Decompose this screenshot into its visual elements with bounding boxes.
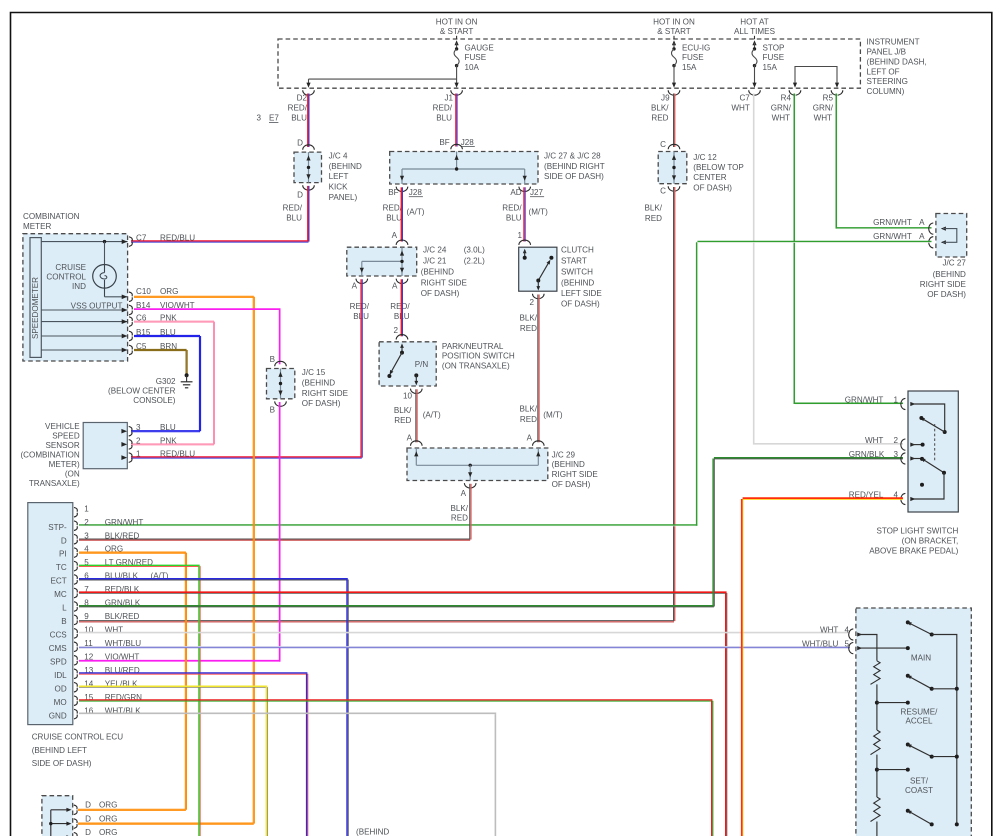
svg-text:WHT: WHT [865, 436, 883, 445]
svg-text:RED: RED [394, 416, 411, 425]
svg-text:2: 2 [529, 298, 534, 307]
wire RED/BLU J/C4 to combination meter C7 [131, 186, 309, 242]
wire BRN C5 to ground G302 [134, 349, 187, 373]
svg-text:ALL TIMES: ALL TIMES [734, 27, 776, 36]
svg-text:METER: METER [23, 222, 51, 231]
svg-text:GRN/WHT: GRN/WHT [105, 518, 144, 527]
wire GRN/WHT R5 to J/C 27 A [836, 94, 931, 229]
svg-text:C10: C10 [136, 287, 151, 296]
bottom switch [906, 809, 910, 813]
svg-text:ORG: ORG [160, 287, 178, 296]
svg-text:RED: RED [520, 324, 537, 333]
svg-text:3: 3 [256, 114, 261, 123]
svg-text:BLK/: BLK/ [519, 405, 537, 414]
svg-text:D2: D2 [297, 93, 308, 102]
svg-text:OF DASH): OF DASH) [693, 183, 732, 192]
svg-text:10A: 10A [465, 63, 480, 72]
svg-text:C: C [660, 186, 666, 195]
svg-text:SPD: SPD [50, 657, 67, 666]
svg-text:ABOVE BRAKE PEDAL): ABOVE BRAKE PEDAL) [869, 546, 958, 555]
svg-text:RED/: RED/ [288, 104, 308, 113]
connector (three D terminals) [42, 796, 73, 836]
svg-text:STOP LIGHT SWITCH: STOP LIGHT SWITCH [876, 527, 958, 536]
wire PNK C6 to VSS pin 2 [131, 321, 215, 445]
svg-text:WHT: WHT [731, 104, 749, 113]
svg-text:15A: 15A [763, 63, 778, 72]
svg-text:PANEL): PANEL) [329, 193, 358, 202]
svg-text:RED: RED [645, 214, 662, 223]
speedometer [30, 238, 41, 358]
svg-text:STEERING: STEERING [867, 77, 908, 86]
wire LT GRN/RED ECU pin 5 [79, 565, 200, 836]
svg-text:RED/: RED/ [350, 302, 370, 311]
svg-text:HOT IN ON: HOT IN ON [436, 17, 478, 26]
svg-text:R5: R5 [823, 93, 834, 102]
svg-text:J/C 27 & J/C 28: J/C 27 & J/C 28 [544, 152, 601, 161]
svg-text:SIDE OF DASH): SIDE OF DASH) [544, 172, 604, 181]
svg-text:LEFT OF: LEFT OF [867, 67, 900, 76]
vehicle speed sensor [83, 423, 127, 469]
svg-text:BLK/RED: BLK/RED [105, 612, 140, 621]
svg-text:RED: RED [451, 513, 468, 522]
svg-text:2: 2 [136, 436, 141, 445]
wire BLU/RED ECU pin 13 [79, 673, 308, 836]
fuse STOP FUSE 15A [752, 40, 757, 87]
svg-text:CCS: CCS [50, 631, 68, 640]
svg-text:D: D [85, 814, 91, 823]
svg-text:OF DASH): OF DASH) [421, 289, 460, 298]
svg-text:(BELOW TOP: (BELOW TOP [693, 163, 744, 172]
svg-text:TC: TC [56, 563, 67, 572]
svg-text:C7: C7 [739, 93, 750, 102]
svg-text:J1: J1 [444, 93, 453, 102]
svg-text:A: A [461, 489, 467, 498]
svg-text:START: START [561, 256, 587, 265]
svg-text:RED/: RED/ [390, 302, 410, 311]
svg-text:2: 2 [84, 518, 89, 527]
wire RED/BLK ECU pin 7 [79, 592, 727, 836]
cruise control ECU [28, 503, 73, 725]
svg-text:A: A [352, 282, 358, 291]
svg-text:BLU: BLU [386, 213, 402, 222]
wire GRN/BLK ECU pin 8 to stop light switch 3 [79, 458, 903, 607]
svg-text:ECT: ECT [51, 577, 67, 586]
wire ORG ECU pin 4 to D connector row 1 [78, 552, 186, 810]
wire BLK/RED J/C 12 to ECU pin 9 [79, 187, 675, 622]
svg-text:POSITION SWITCH: POSITION SWITCH [442, 352, 515, 361]
wire branch from gauge fuse to D2 [309, 78, 457, 80]
park/neutral position switch [396, 335, 408, 340]
svg-text:VEHICLE: VEHICLE [45, 422, 80, 431]
svg-text:LEFT: LEFT [329, 172, 349, 181]
svg-text:BF: BF [388, 188, 398, 197]
svg-text:COAST: COAST [905, 786, 933, 795]
svg-text:SPEEDOMETER: SPEEDOMETER [31, 277, 40, 339]
svg-text:RED: RED [520, 415, 537, 424]
svg-text:GRN/: GRN/ [771, 104, 792, 113]
svg-text:RIGHT SIDE: RIGHT SIDE [302, 389, 349, 398]
svg-text:RIGHT SIDE: RIGHT SIDE [421, 279, 468, 288]
svg-text:RED/BLU: RED/BLU [160, 233, 195, 242]
connector exits below J/B [303, 90, 315, 95]
svg-text:10: 10 [403, 391, 413, 400]
cruise control switch assembly [856, 608, 971, 836]
svg-text:OD: OD [55, 684, 67, 693]
svg-text:D: D [85, 801, 91, 810]
svg-text:D: D [61, 536, 67, 545]
svg-text:1: 1 [136, 450, 141, 459]
wire BLK/RED J/C 29 to ECU pin 3 [79, 484, 471, 540]
svg-text:AD: AD [510, 188, 521, 197]
svg-text:G302: G302 [156, 377, 176, 386]
svg-text:GRN/WHT: GRN/WHT [873, 218, 912, 227]
svg-text:PANEL J/B: PANEL J/B [867, 48, 907, 57]
svg-text:PARK/NEUTRAL: PARK/NEUTRAL [442, 342, 504, 351]
svg-text:WHT: WHT [772, 114, 790, 123]
svg-text:BLK/: BLK/ [651, 104, 669, 113]
svg-text:METER): METER) [49, 460, 80, 469]
wire WHT/BLU ECU pin 11 to control switch 5 [79, 646, 850, 647]
svg-text:R4: R4 [781, 93, 792, 102]
svg-text:SENSOR: SENSOR [46, 441, 80, 450]
fuse ECU-IG FUSE 15A [672, 40, 677, 87]
svg-text:D: D [297, 139, 303, 148]
svg-text:CMS: CMS [49, 644, 68, 653]
svg-text:A: A [919, 218, 925, 227]
svg-text:3: 3 [893, 450, 898, 459]
svg-text:GRN/: GRN/ [813, 104, 834, 113]
svg-text:ORG: ORG [99, 814, 117, 823]
svg-text:(BEHIND RIGHT: (BEHIND RIGHT [544, 162, 605, 171]
svg-text:RED/: RED/ [283, 204, 303, 213]
svg-text:BLK/RED: BLK/RED [105, 531, 140, 540]
svg-text:9: 9 [84, 612, 89, 621]
svg-text:CONSOLE): CONSOLE) [133, 396, 176, 405]
svg-text:VSS OUTPUT: VSS OUTPUT [71, 301, 123, 310]
svg-text:(A/T): (A/T) [423, 410, 441, 419]
wire GRN/WHT R4 to stop light switch 1 [794, 94, 903, 405]
svg-text:PI: PI [59, 550, 67, 559]
svg-text:COLUMN): COLUMN) [867, 87, 905, 96]
svg-text:J9: J9 [661, 93, 670, 102]
wire RED/BLU D2 to J/C 4 [308, 94, 309, 148]
svg-text:J/C 21: J/C 21 [423, 256, 447, 265]
svg-text:GND: GND [49, 711, 67, 720]
svg-text:GRN/WHT: GRN/WHT [873, 232, 912, 241]
wire RED/BLU to clutch start switch [524, 187, 525, 241]
wire RED/BLU J1 to J/C 27 & 28 [456, 94, 457, 147]
svg-text:D: D [85, 828, 91, 836]
ground G302 [181, 373, 193, 388]
svg-text:RED/: RED/ [433, 104, 453, 113]
stop light switch [908, 391, 958, 512]
RESUME/ACCEL switch [906, 674, 910, 678]
svg-text:J/C 24: J/C 24 [423, 245, 447, 254]
svg-text:BLU: BLU [291, 114, 307, 123]
svg-text:SPEED: SPEED [52, 431, 80, 440]
wire VIO/WHT J/C 15 to ECU pin 12 [79, 402, 281, 662]
svg-text:2: 2 [393, 326, 398, 335]
svg-text:OF DASH): OF DASH) [561, 299, 600, 308]
svg-text:KICK: KICK [329, 183, 348, 192]
svg-text:ORG: ORG [99, 801, 117, 810]
svg-text:A: A [392, 282, 398, 291]
svg-text:BLU: BLU [506, 213, 522, 222]
resistor R2 [871, 730, 881, 755]
wire VIO/WHT B14 to J/C 15 [134, 309, 281, 364]
svg-text:WHT: WHT [820, 626, 838, 635]
svg-text:A: A [919, 232, 925, 241]
meter terminals [122, 239, 128, 244]
svg-text:(3.0L): (3.0L) [464, 245, 485, 254]
wire BLU/BLK ECU pin 6 [79, 579, 348, 836]
wire RED/BLU J/C 24 to park/neutral switch [401, 279, 402, 336]
svg-text:(A/T): (A/T) [407, 208, 425, 217]
svg-text:BLK/: BLK/ [644, 204, 662, 213]
svg-text:ECU-IG: ECU-IG [682, 44, 710, 53]
cruise control indicator lamp [41, 240, 127, 297]
svg-text:J/C 15: J/C 15 [302, 368, 326, 377]
wire RED/GRN ECU pin 15 [79, 700, 713, 836]
svg-text:(BEHIND: (BEHIND [302, 379, 335, 388]
svg-text:SIDE OF DASH): SIDE OF DASH) [32, 759, 92, 768]
wire BLU B15 to VSS pin 3 [131, 335, 201, 431]
svg-text:(COMBINATION: (COMBINATION [20, 450, 79, 459]
svg-text:(M/T): (M/T) [529, 208, 549, 217]
svg-text:E7: E7 [269, 114, 279, 123]
svg-text:J/C 4: J/C 4 [329, 152, 348, 161]
svg-text:& START: & START [657, 27, 690, 36]
svg-text:(ON: (ON [65, 469, 80, 478]
svg-text:BLU: BLU [160, 423, 176, 432]
svg-text:STP-: STP- [48, 523, 67, 532]
wire WHT C7 to stop light switch 2 [754, 94, 903, 445]
svg-text:HOT AT: HOT AT [740, 17, 769, 26]
svg-text:GRN/BLK: GRN/BLK [849, 450, 885, 459]
svg-text:(ON BRACKET,: (ON BRACKET, [902, 537, 959, 546]
svg-text:GAUGE: GAUGE [465, 44, 495, 53]
svg-text:BLU: BLU [436, 114, 452, 123]
svg-text:(ON TRANSAXLE): (ON TRANSAXLE) [442, 361, 510, 370]
svg-text:FUSE: FUSE [763, 53, 785, 62]
svg-text:RED/: RED/ [383, 203, 403, 212]
VSS terminals [121, 429, 127, 434]
svg-text:C7: C7 [136, 233, 147, 242]
svg-text:WHT: WHT [814, 114, 832, 123]
svg-text:(BEHIND: (BEHIND [329, 162, 362, 171]
svg-text:RIGHT SIDE: RIGHT SIDE [552, 470, 599, 479]
svg-text:A: A [407, 433, 413, 442]
svg-text:PNK: PNK [160, 436, 177, 445]
svg-text:P/N: P/N [415, 360, 429, 369]
svg-text:B: B [270, 355, 275, 364]
svg-text:ACCEL: ACCEL [906, 717, 933, 726]
wire ORG C10 to D connector row 2 [78, 296, 254, 824]
junction block: instrument panel J/B [278, 39, 860, 88]
svg-text:COMBINATION: COMBINATION [23, 212, 80, 221]
svg-text:IND: IND [72, 282, 86, 291]
svg-text:ORG: ORG [99, 828, 117, 836]
svg-text:(BEHIND: (BEHIND [421, 268, 454, 277]
svg-text:(BEHIND: (BEHIND [933, 270, 966, 279]
svg-text:(BEHIND LEFT: (BEHIND LEFT [32, 746, 87, 755]
svg-text:C: C [660, 140, 666, 149]
wire BLK/RED clutch switch to J/C 29 [538, 295, 539, 443]
svg-text:3: 3 [84, 531, 89, 540]
svg-text:OF DASH): OF DASH) [302, 399, 341, 408]
junction box J/C 4 [303, 145, 315, 150]
svg-text:VIO/WHT: VIO/WHT [105, 652, 140, 661]
svg-text:J/C 29: J/C 29 [552, 450, 576, 459]
svg-text:OF DASH): OF DASH) [927, 290, 966, 299]
svg-text:1: 1 [84, 504, 89, 513]
svg-text:D: D [297, 191, 303, 200]
svg-text:3: 3 [136, 423, 141, 432]
wire YEL/BLK ECU pin 14 [79, 686, 268, 836]
svg-text:OF DASH): OF DASH) [552, 480, 591, 489]
svg-text:INSTRUMENT: INSTRUMENT [867, 38, 920, 47]
svg-text:15A: 15A [682, 63, 697, 72]
svg-text:CLUTCH: CLUTCH [561, 245, 594, 254]
svg-text:WHT/BLU: WHT/BLU [802, 639, 839, 648]
svg-text:RIGHT SIDE: RIGHT SIDE [920, 280, 967, 289]
svg-text:BLU: BLU [286, 213, 302, 222]
svg-text:CONTROL: CONTROL [46, 273, 86, 282]
svg-text:(BELOW CENTER: (BELOW CENTER [108, 386, 176, 395]
ECU pin terminals [74, 507, 77, 517]
svg-text:CRUISE CONTROL ECU: CRUISE CONTROL ECU [32, 733, 124, 742]
svg-text:GRN/WHT: GRN/WHT [845, 396, 884, 405]
wire RED/BLU J/C 24 to VSS pin 1 [131, 279, 362, 458]
svg-text:IDL: IDL [54, 671, 67, 680]
svg-text:LEFT SIDE: LEFT SIDE [561, 289, 602, 298]
svg-text:J27: J27 [530, 188, 544, 197]
svg-text:RESUME/: RESUME/ [901, 707, 939, 716]
svg-text:BF: BF [439, 138, 449, 147]
svg-text:(M/T): (M/T) [543, 410, 563, 419]
svg-text:TRANSAXLE): TRANSAXLE) [29, 479, 80, 488]
resistor R1 [871, 661, 881, 685]
svg-text:J28: J28 [461, 138, 475, 147]
resistor R3 [871, 797, 881, 821]
svg-text:1: 1 [893, 396, 898, 405]
svg-text:SET/: SET/ [910, 777, 929, 786]
svg-text:MO: MO [54, 698, 67, 707]
wire WHT/BLK ECU pin 16 [79, 713, 496, 836]
svg-text:MC: MC [54, 590, 67, 599]
svg-text:MAIN: MAIN [911, 653, 931, 662]
wire RED/BLU to J/C 24 [401, 187, 402, 241]
svg-text:B: B [270, 406, 275, 415]
svg-text:12: 12 [84, 652, 94, 661]
svg-text:(BEHIND: (BEHIND [561, 279, 594, 288]
svg-text:RED/: RED/ [502, 203, 522, 212]
SET/COAST switch [906, 743, 910, 747]
svg-text:(BEHIND: (BEHIND [356, 827, 389, 836]
svg-text:HOT IN ON: HOT IN ON [653, 17, 695, 26]
svg-text:BLK/: BLK/ [394, 406, 412, 415]
svg-text:SWITCH: SWITCH [561, 268, 593, 277]
svg-text:J/C 12: J/C 12 [693, 153, 717, 162]
svg-text:2: 2 [893, 436, 898, 445]
svg-text:(2.2L): (2.2L) [464, 256, 485, 265]
svg-text:& START: & START [440, 27, 473, 36]
svg-text:(BEHIND DASH,: (BEHIND DASH, [867, 57, 927, 66]
bus bar to R4 and R5 [795, 67, 837, 85]
svg-text:(BEHIND: (BEHIND [552, 460, 585, 469]
wire RED/YEL stop light switch 4 [742, 498, 903, 836]
svg-text:STOP: STOP [763, 44, 785, 53]
svg-text:FUSE: FUSE [465, 53, 487, 62]
svg-text:L: L [62, 604, 67, 613]
svg-text:BLK/: BLK/ [450, 504, 468, 513]
wire WHT ECU pin 10 to control switch 4 [79, 632, 850, 634]
svg-text:CENTER: CENTER [693, 173, 726, 182]
svg-text:BLK/: BLK/ [519, 314, 537, 323]
svg-text:RED: RED [651, 114, 668, 123]
wire BLK/RED J9 to J/C 12 [674, 94, 675, 148]
svg-text:A: A [527, 433, 533, 442]
wire BLK/RED P/N to J/C 29 [416, 389, 417, 442]
svg-text:CRUISE: CRUISE [55, 263, 86, 272]
svg-text:B: B [61, 617, 66, 626]
svg-text:RED/BLU: RED/BLU [160, 450, 195, 459]
control switch internals [859, 635, 877, 661]
svg-text:FUSE: FUSE [682, 53, 704, 62]
svg-text:A: A [392, 231, 398, 240]
svg-text:1: 1 [517, 231, 522, 240]
fuse GAUGE FUSE 10A [454, 40, 459, 87]
wire GRN/WHT ECU pin 2 to J/C 27 A [79, 242, 932, 526]
svg-text:J/C 27: J/C 27 [942, 259, 966, 268]
svg-text:J28: J28 [409, 188, 423, 197]
